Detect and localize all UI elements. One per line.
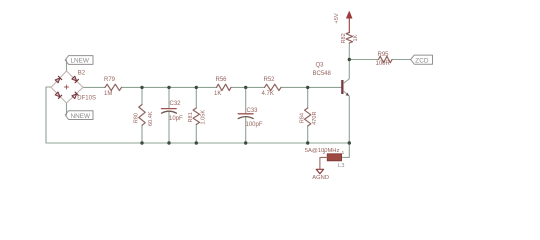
resistor R95 xyxy=(379,56,393,62)
wire collector column up to supply xyxy=(348,43,350,79)
wire left rail from bridge left vertex down and along bottom xyxy=(46,87,349,143)
wire LNEW stub xyxy=(66,60,68,71)
svg-text:1M: 1M xyxy=(104,91,112,97)
wire C32 column xyxy=(168,87,170,143)
wire junction to R95 xyxy=(349,59,378,61)
svg-text:470R: 470R xyxy=(312,111,318,124)
bridge diode D top-right xyxy=(72,76,79,83)
ferrite bead L3 xyxy=(327,154,341,161)
svg-text:4.7K: 4.7K xyxy=(262,91,274,97)
wire node after R79 xyxy=(122,86,217,88)
bead left pin wire to AGND xyxy=(320,157,327,169)
svg-text:1K: 1K xyxy=(353,34,359,41)
svg-text:10pF: 10pF xyxy=(169,116,183,122)
svg-text:Q3: Q3 xyxy=(316,62,325,68)
transistor Q3 emitter lead with arrow xyxy=(344,91,350,96)
resistor R84 xyxy=(305,108,311,126)
wire bead right pin to rail xyxy=(341,143,349,157)
resistor R80 xyxy=(139,105,145,126)
net tag LNEW xyxy=(65,56,93,65)
wire R81 column xyxy=(195,87,197,143)
bridge plus mark xyxy=(65,85,69,89)
capacitor C33 xyxy=(238,114,253,119)
resistor R56 xyxy=(217,84,232,90)
svg-text:R84: R84 xyxy=(299,113,305,123)
transistor Q3 base bar xyxy=(341,80,343,94)
svg-text:R56: R56 xyxy=(216,77,228,83)
svg-text:DF10S: DF10S xyxy=(77,96,96,102)
svg-text:B2: B2 xyxy=(78,71,86,77)
bridge diode D top-left xyxy=(55,76,62,83)
wire NNEW stub xyxy=(66,103,68,115)
svg-text:LNEW: LNEW xyxy=(71,58,90,65)
svg-text:AGND: AGND xyxy=(312,175,329,181)
svg-text:C32: C32 xyxy=(170,101,182,107)
wire emitter column down to bottom rail xyxy=(348,97,350,144)
wire R95 to ZCD tag xyxy=(392,59,411,61)
bridge diode D bottom-right xyxy=(72,92,79,99)
svg-text:R95: R95 xyxy=(378,52,390,58)
svg-text:R52: R52 xyxy=(264,77,276,83)
svg-text:R80: R80 xyxy=(134,113,140,123)
svg-text:C33: C33 xyxy=(247,108,259,114)
capacitor C32 xyxy=(162,109,177,114)
node junction dots xyxy=(140,58,351,145)
wire node after R56 xyxy=(231,86,265,88)
svg-text:L3: L3 xyxy=(338,163,344,169)
wire node after R52 to base xyxy=(281,86,341,88)
resistor R82 xyxy=(346,32,352,43)
svg-text:100pF: 100pF xyxy=(246,122,263,128)
svg-text:+5V: +5V xyxy=(334,13,340,23)
ground AGND symbol xyxy=(316,169,323,174)
svg-text:1: 1 xyxy=(342,150,345,155)
wire C33 column xyxy=(245,87,247,143)
svg-text:R79: R79 xyxy=(104,77,116,83)
svg-text:R82: R82 xyxy=(341,33,347,43)
resistor R52 xyxy=(265,84,282,90)
svg-text:BC548: BC548 xyxy=(313,71,332,77)
bridge rectifier B2 diamond outline xyxy=(51,71,83,103)
svg-text:R81: R81 xyxy=(188,112,194,122)
svg-text:60.4K: 60.4K xyxy=(148,111,154,126)
transistor Q3 collector lead xyxy=(344,79,350,84)
resistor R81 xyxy=(193,108,199,125)
bridge diode D bottom-left xyxy=(55,92,62,99)
net tag NNEW xyxy=(65,111,93,120)
wire top rail bridge to transistor base xyxy=(83,86,105,88)
svg-text:NNEW: NNEW xyxy=(71,113,91,120)
svg-text:1.05K: 1.05K xyxy=(201,110,207,125)
net tag ZCD xyxy=(411,55,433,64)
wire R80 column xyxy=(141,87,143,143)
svg-text:100R: 100R xyxy=(376,61,391,67)
supply +5V arrow xyxy=(348,18,350,33)
wire R84 column xyxy=(307,87,309,143)
resistor R79 xyxy=(105,84,122,90)
svg-text:ZCD: ZCD xyxy=(415,57,429,64)
svg-text:1K: 1K xyxy=(214,91,221,97)
svg-text:2: 2 xyxy=(323,150,326,155)
